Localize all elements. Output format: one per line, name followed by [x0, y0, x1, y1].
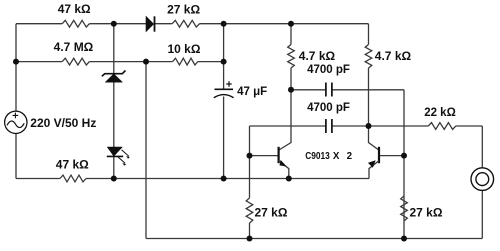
- AC source 220V/50Hz: [5, 111, 27, 133]
- capacitor C2 4700 pF (upper): [326, 83, 332, 97]
- svg-text:47 kΩ: 47 kΩ: [58, 2, 91, 16]
- node top/zener: [111, 21, 117, 27]
- svg-text:22 kΩ: 22 kΩ: [424, 107, 456, 119]
- svg-text:27 kΩ: 27 kΩ: [167, 2, 200, 16]
- resistor R5 47 kOhm (bottom left): [60, 175, 86, 182]
- node Q2 base: [401, 153, 407, 159]
- svg-text:27 kΩ: 27 kΩ: [410, 206, 443, 220]
- resistor R4 10 kOhm: [173, 58, 198, 65]
- wire left base branch x=249.5: [249, 126, 251, 239]
- wire output branch x=482.3: [481, 126, 483, 239]
- wire bottom rail y=238.5: [146, 238, 482, 240]
- svg-text:47 μF: 47 μF: [237, 86, 267, 98]
- node Q1 collector: [288, 87, 294, 93]
- resistor R9 27 kOhm (left): [246, 198, 253, 223]
- wire cap branch x=223.6: [223, 24, 225, 179]
- svg-text:27 kΩ: 27 kΩ: [255, 205, 288, 219]
- node Q1 emitter: [286, 176, 292, 182]
- wire left rail: [15, 24, 17, 179]
- wire cap row1 y=90: [291, 89, 404, 91]
- node top/R7: [288, 21, 294, 27]
- wire left 4.7k / Q1 collector branch x=291: [279, 24, 291, 150]
- node row2/cap: [221, 59, 227, 65]
- node row2/x146: [143, 59, 149, 65]
- node row2 left: [13, 59, 19, 65]
- wire right 4.7k / Q2 collector branch x=368.5: [369, 24, 379, 150]
- capacitor C3 4700 pF (lower): [326, 119, 332, 133]
- resistor R2 27 kOhm (top): [172, 20, 199, 27]
- wire cap row2 y=126: [250, 125, 483, 127]
- svg-text:10 kΩ: 10 kΩ: [168, 42, 201, 56]
- node top/cap: [221, 21, 227, 27]
- transistor Q1 (C9013): [278, 147, 280, 163]
- wire row2 segments: [16, 61, 224, 63]
- node R9/bottom: [247, 236, 253, 242]
- transistor Q2 (C9013): [378, 147, 380, 163]
- wire right cross-couple branch x=404: [403, 90, 405, 239]
- LED light arrows: [118, 150, 129, 163]
- zener diode ZD1: [102, 71, 126, 77]
- resistor R6 22 kOhm: [428, 123, 456, 130]
- svg-text:4.7 MΩ: 4.7 MΩ: [54, 40, 94, 54]
- resistor R7 4.7 kOhm (left): [288, 45, 295, 69]
- svg-text:4700 pF: 4700 pF: [307, 64, 350, 76]
- svg-text:4700 pF: 4700 pF: [307, 102, 350, 114]
- node cap/rail: [221, 176, 227, 182]
- svg-text:47 kΩ: 47 kΩ: [56, 158, 89, 172]
- svg-text:220 V/50 Hz: 220 V/50 Hz: [30, 116, 96, 130]
- wire bottom-left rail y=178.5: [16, 178, 369, 180]
- node R10/bottom: [401, 236, 407, 242]
- resistor R8 4.7 kOhm (right): [365, 45, 372, 69]
- resistor R10 27 kOhm (right) : zig segment on x=404: [401, 196, 408, 221]
- wire branch x=146: [145, 62, 147, 239]
- resistor R1 47 kOhm (top left): [62, 20, 89, 27]
- node Q2 collector: [366, 123, 372, 129]
- svg-text:4.7 kΩ: 4.7 kΩ: [375, 49, 412, 63]
- node LED/rail: [111, 176, 117, 182]
- wire top rail segments: [16, 23, 369, 25]
- diode D1: [146, 16, 154, 31]
- resistor R3 4.7 MOhm: [62, 58, 89, 65]
- capacitor C1 47uF electrolytic: [215, 88, 234, 90]
- node Q1 base: [247, 153, 253, 159]
- wire zener/LED branch x=114: [113, 24, 115, 179]
- LED D2: [107, 147, 122, 156]
- svg-text:4.7 kΩ: 4.7 kΩ: [299, 49, 336, 63]
- output connector J1: [471, 168, 494, 191]
